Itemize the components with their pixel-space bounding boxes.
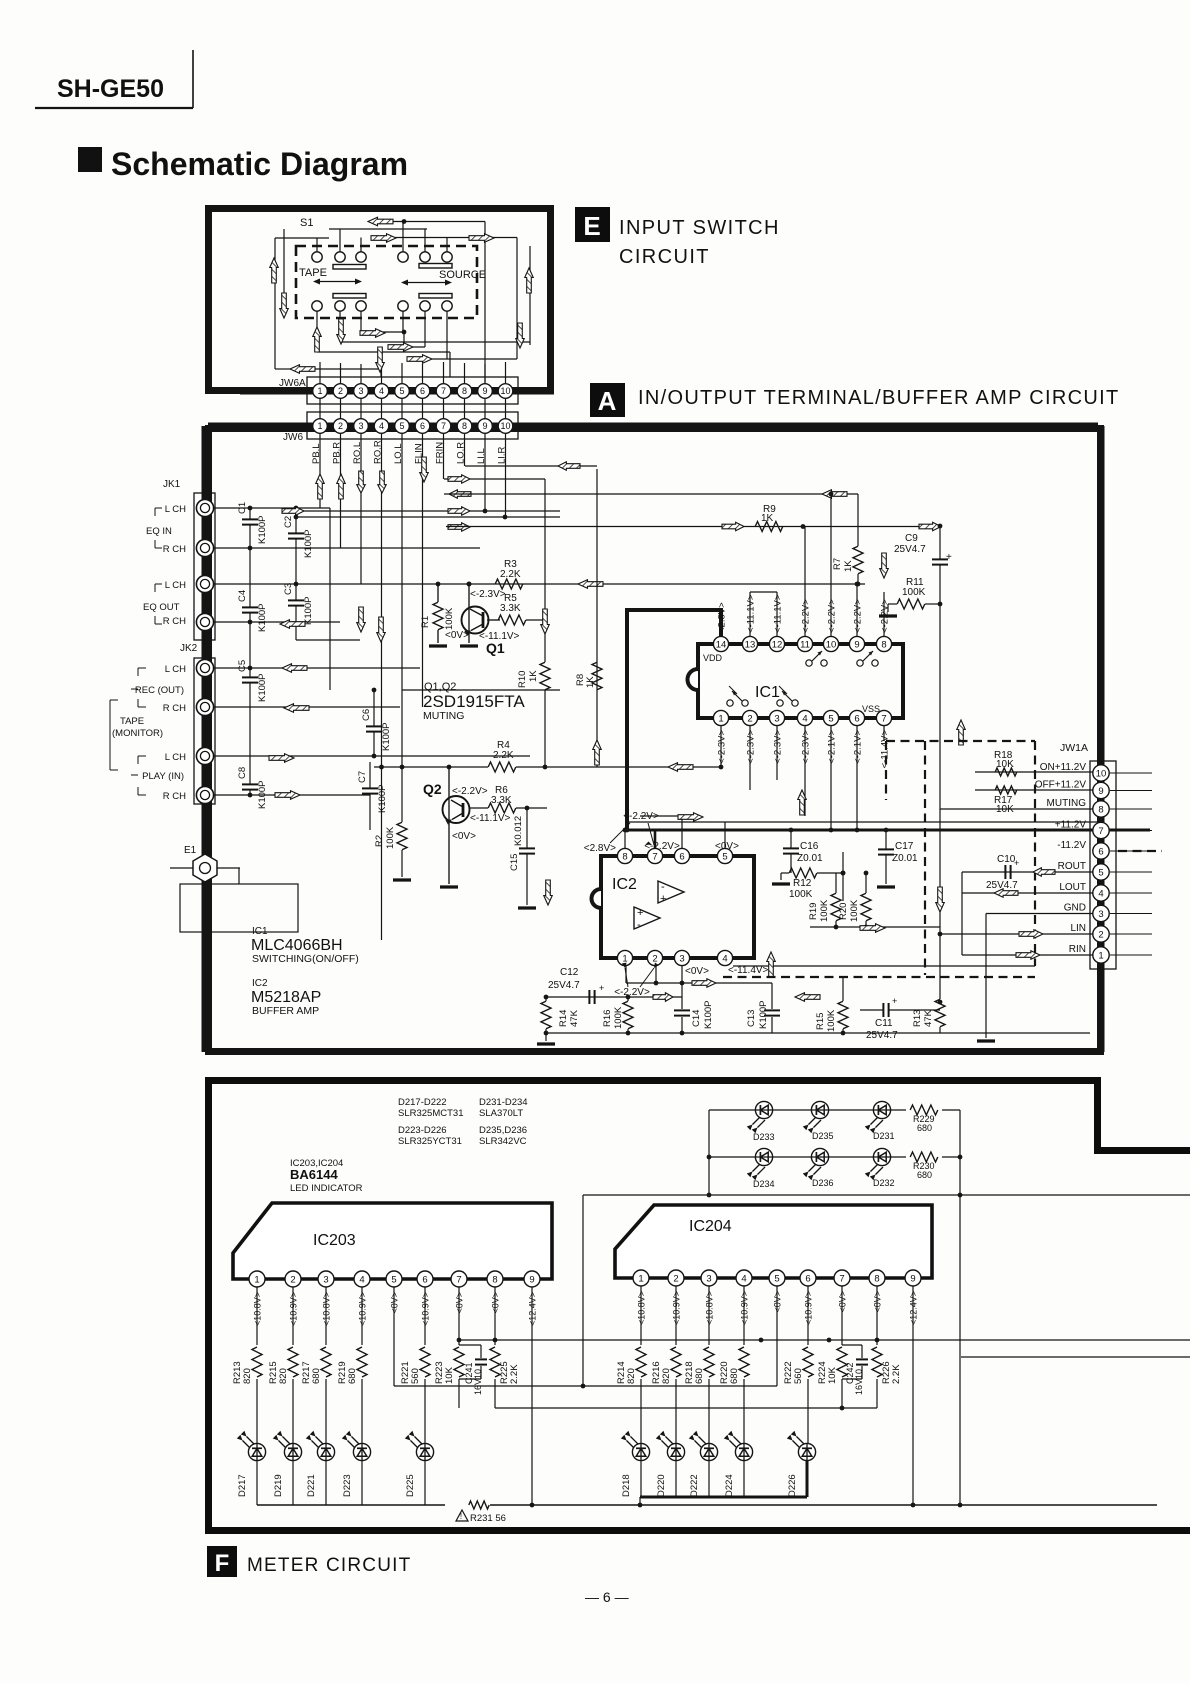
svg-text:680: 680 [347,1368,358,1384]
svg-text:5: 5 [722,851,727,862]
svg-text:<-2.2V>: <-2.2V> [452,786,488,797]
svg-text:3: 3 [774,713,779,724]
svg-text:8: 8 [462,386,467,396]
svg-text:10: 10 [500,421,510,431]
svg-text:3.3K: 3.3K [500,603,521,614]
svg-text:LOUT: LOUT [1059,882,1086,893]
svg-text:SLR342VC: SLR342VC [479,1136,527,1147]
svg-text:560: 560 [793,1368,804,1384]
svg-text:4: 4 [802,713,807,724]
svg-text:R CH: R CH [163,616,186,627]
svg-text:C16: C16 [800,841,819,852]
svg-text:9: 9 [910,1273,915,1284]
svg-text:MLC4066BH: MLC4066BH [251,937,343,954]
svg-text:6: 6 [805,1273,810,1284]
svg-text:3: 3 [358,421,363,431]
svg-text:R1: R1 [420,616,431,628]
svg-text:INPUT SWITCH: INPUT SWITCH [619,217,780,239]
svg-text:OFF+11.2V: OFF+11.2V [1035,780,1087,791]
svg-text:D223-D226: D223-D226 [398,1125,447,1136]
svg-text:R14: R14 [558,1010,569,1027]
svg-text:D218: D218 [621,1474,632,1497]
svg-text:100K: 100K [385,826,396,849]
svg-text:820: 820 [626,1368,637,1384]
svg-text:3: 3 [706,1273,711,1284]
svg-text:<-2.3V>: <-2.3V> [746,730,757,764]
svg-text:+: + [637,907,643,919]
svg-text:K100P: K100P [257,673,268,702]
svg-text:D221: D221 [306,1474,317,1497]
svg-text:4: 4 [359,1274,364,1285]
svg-text:5: 5 [399,386,404,396]
svg-text:+: + [660,893,666,905]
svg-text:6: 6 [420,421,425,431]
svg-text:<-11.1V>: <-11.1V> [470,813,511,824]
svg-text:JW6A: JW6A [279,378,306,389]
svg-text:MUTING: MUTING [1047,798,1087,809]
svg-text:ON+11.2V: ON+11.2V [1040,762,1087,773]
svg-text:Schematic Diagram: Schematic Diagram [111,146,408,182]
svg-text:-: - [661,881,665,893]
svg-text:A: A [598,386,617,416]
svg-text:2: 2 [338,421,343,431]
svg-text:6: 6 [1098,846,1103,857]
svg-text:820: 820 [278,1368,289,1384]
svg-text:VDD: VDD [703,653,723,663]
svg-text:6: 6 [854,713,859,724]
svg-text:R231 56: R231 56 [470,1513,506,1524]
svg-text:5: 5 [828,713,833,724]
svg-text:D224: D224 [724,1474,735,1497]
svg-text:100K: 100K [826,1009,837,1032]
svg-text:1: 1 [622,953,627,964]
svg-text:R2: R2 [374,835,385,847]
svg-text:8: 8 [874,1273,879,1284]
svg-text:TAPE: TAPE [299,267,327,279]
svg-text:K100P: K100P [257,515,268,544]
svg-text:2: 2 [747,713,752,724]
svg-text:RIN: RIN [1069,944,1086,955]
svg-text:820: 820 [242,1368,253,1384]
svg-text:L CH: L CH [165,580,186,591]
svg-text:D222: D222 [689,1474,700,1497]
svg-text:Q2: Q2 [423,781,442,797]
svg-text:4: 4 [379,421,384,431]
svg-text:100K: 100K [613,1006,624,1029]
svg-text:+11.2V: +11.2V [1055,820,1087,831]
svg-text:D235: D235 [812,1131,834,1141]
svg-text:1: 1 [317,386,322,396]
svg-text:R CH: R CH [163,544,186,555]
svg-text:820: 820 [661,1368,672,1384]
svg-text:10: 10 [826,639,837,650]
svg-text:3: 3 [1098,909,1103,920]
svg-text:C2: C2 [283,516,294,528]
svg-text:S1: S1 [300,217,313,229]
svg-text:16V10: 16V10 [854,1369,864,1395]
svg-text:D232: D232 [873,1178,895,1188]
svg-text:4: 4 [722,953,727,964]
svg-text:C17: C17 [895,841,914,852]
svg-text:D234: D234 [753,1179,775,1189]
svg-text:8: 8 [622,851,627,862]
svg-text:C5: C5 [237,660,248,672]
svg-text:25V4.7: 25V4.7 [866,1030,898,1041]
svg-text:R20: R20 [838,903,849,920]
svg-text:3: 3 [358,386,363,396]
svg-text:Z0.01: Z0.01 [892,853,918,864]
svg-text:K100P: K100P [257,603,268,632]
svg-text:<2.8V>: <2.8V> [717,602,728,633]
svg-text:LIN: LIN [1070,923,1086,934]
svg-text:<0V>: <0V> [685,966,709,977]
svg-text:-11.2V: -11.2V [1057,840,1086,851]
svg-text:5: 5 [399,421,404,431]
svg-text:100K: 100K [849,899,860,922]
svg-text:E1: E1 [184,845,197,856]
svg-text:6: 6 [679,851,684,862]
svg-text:680: 680 [917,1123,932,1133]
svg-text:IN/OUTPUT TERMINAL/BUFFER AM: IN/OUTPUT TERMINAL/BUFFER AMP CIRCUIT [638,387,1119,409]
svg-text:E: E [583,211,600,241]
svg-text:2: 2 [673,1273,678,1284]
svg-text:R12: R12 [793,878,812,889]
svg-text:13: 13 [745,639,756,650]
svg-text:7: 7 [839,1273,844,1284]
svg-text:8: 8 [462,421,467,431]
svg-text:7: 7 [456,1274,461,1285]
svg-text:BUFFER AMP: BUFFER AMP [252,1005,319,1017]
svg-text:6: 6 [420,386,425,396]
svg-text:10K: 10K [444,1366,455,1384]
svg-text:C10: C10 [997,854,1016,865]
svg-text:2: 2 [290,1274,295,1285]
svg-text:R7: R7 [832,558,843,570]
svg-text:8: 8 [492,1274,497,1285]
svg-text:<-2.2V>: <-2.2V> [614,987,650,998]
svg-text:R15: R15 [815,1013,826,1030]
svg-text:3: 3 [323,1274,328,1285]
svg-text:D223: D223 [342,1474,353,1497]
svg-text:11: 11 [800,639,810,650]
svg-text:10: 10 [1096,768,1107,779]
svg-text:10: 10 [500,386,510,396]
svg-text:14: 14 [716,639,727,650]
svg-text:MUTING: MUTING [423,710,464,722]
svg-text:GND: GND [1064,903,1086,914]
svg-text:16V10: 16V10 [473,1369,483,1395]
svg-text:LED INDICATOR: LED INDICATOR [290,1183,363,1194]
svg-text:<0V>: <0V> [715,841,739,852]
svg-text:6: 6 [422,1274,427,1285]
svg-text:D226: D226 [787,1474,798,1497]
svg-text:SLR325YCT31: SLR325YCT31 [398,1136,462,1147]
svg-text:K100P: K100P [703,1000,714,1029]
svg-text:R19: R19 [808,903,819,920]
svg-text:D236: D236 [812,1178,834,1188]
svg-text:8: 8 [881,639,886,650]
svg-text:5: 5 [774,1273,779,1284]
svg-text:C14: C14 [691,1010,702,1027]
svg-text:SH-GE50: SH-GE50 [57,75,164,103]
svg-text:K0.012: K0.012 [513,816,524,846]
svg-text:VSS: VSS [862,704,880,714]
svg-text:1K: 1K [528,670,539,682]
svg-text:C9: C9 [905,533,918,544]
svg-text:12: 12 [772,639,783,650]
svg-text:D217-D222: D217-D222 [398,1097,447,1108]
svg-text:2: 2 [338,386,343,396]
svg-text:47K: 47K [569,1009,580,1027]
svg-text:(MONITOR): (MONITOR) [112,728,163,739]
svg-text:R CH: R CH [163,703,186,714]
svg-text:+: + [599,983,604,993]
svg-text:<-2.2V>: <-2.2V> [801,599,812,633]
svg-text:+: + [946,552,952,563]
svg-text:<-2.2V>: <-2.2V> [827,599,838,633]
svg-text:4: 4 [1098,888,1103,899]
svg-text:C6: C6 [361,709,372,721]
svg-text:K100P: K100P [377,784,388,813]
svg-text:IC203: IC203 [313,1232,356,1249]
svg-text:D219: D219 [273,1474,284,1497]
svg-text:9: 9 [854,639,859,650]
svg-text:D220: D220 [656,1474,667,1497]
svg-text:5: 5 [1098,867,1103,878]
svg-text:4: 4 [379,386,384,396]
svg-text:<-2.1V>: <-2.1V> [853,730,864,764]
svg-text:K100P: K100P [758,1000,769,1029]
svg-text:<0V>: <0V> [452,831,476,842]
svg-text:SLA370LT: SLA370LT [479,1108,523,1119]
svg-text:2.2K: 2.2K [891,1364,902,1384]
svg-text:K100P: K100P [303,596,314,625]
svg-text:7: 7 [881,713,886,724]
svg-text:1: 1 [718,713,723,724]
svg-text:1: 1 [1098,950,1103,961]
svg-text:2.2K: 2.2K [509,1364,520,1384]
svg-text:100K: 100K [819,899,830,922]
svg-text:CIRCUIT: CIRCUIT [619,246,710,268]
svg-text:IC1: IC1 [755,684,780,701]
svg-text:Z0.01: Z0.01 [797,853,823,864]
svg-text:680: 680 [694,1368,705,1384]
svg-text:D231-D234: D231-D234 [479,1097,528,1108]
svg-text:9: 9 [482,386,487,396]
svg-text:ROUT: ROUT [1058,861,1086,872]
svg-text:M5218AP: M5218AP [251,989,321,1006]
svg-text:D233: D233 [753,1132,775,1142]
svg-text:F: F [215,1550,230,1577]
svg-text:10K: 10K [996,759,1014,770]
svg-text:TAPE: TAPE [120,716,144,727]
svg-text:C4: C4 [237,590,248,602]
svg-text:IC204: IC204 [689,1218,732,1235]
svg-text:8: 8 [1098,804,1103,815]
svg-text:47K: 47K [923,1009,934,1027]
svg-text:C15: C15 [509,854,520,871]
svg-text:SLR325MCT31: SLR325MCT31 [398,1108,463,1119]
svg-text:— 6 —: — 6 — [585,1589,629,1605]
svg-text:<-11.1V>: <-11.1V> [746,594,757,633]
svg-text:D225: D225 [405,1474,416,1497]
svg-text:<-2.1V>: <-2.1V> [827,730,838,764]
svg-text:L CH: L CH [165,504,186,515]
svg-text:2.2K: 2.2K [500,569,521,580]
svg-text:EQ IN: EQ IN [146,526,172,537]
svg-text:<-11.4V>: <-11.4V> [728,965,769,976]
svg-text:2: 2 [1098,929,1103,940]
svg-text:JW1A: JW1A [1060,742,1088,754]
svg-text:1: 1 [638,1273,643,1284]
svg-text:<-2.3V>: <-2.3V> [773,730,784,764]
svg-text:560: 560 [410,1368,421,1384]
svg-text:C13: C13 [746,1010,757,1027]
svg-text:BA6144: BA6144 [290,1167,338,1182]
svg-text:<2.8V>: <2.8V> [584,843,616,854]
svg-text:R10: R10 [517,671,528,688]
svg-text:IC2: IC2 [252,978,268,989]
svg-text:<-2.2V>: <-2.2V> [853,599,864,633]
svg-text:100K: 100K [789,889,813,900]
svg-text:100K: 100K [902,587,926,598]
svg-text:METER CIRCUIT: METER CIRCUIT [247,1555,411,1576]
svg-text:100K: 100K [444,607,455,630]
svg-text:SWITCHING(ON/OFF): SWITCHING(ON/OFF) [252,953,359,965]
svg-text:25V4.7: 25V4.7 [548,980,580,991]
svg-text:9: 9 [482,421,487,431]
svg-text:R CH: R CH [163,791,186,802]
svg-text:JW6: JW6 [283,432,303,443]
svg-text:7: 7 [441,386,446,396]
svg-text:IC2: IC2 [612,876,637,893]
svg-text:680: 680 [917,1170,932,1180]
svg-text:7: 7 [1098,826,1103,837]
svg-text:SOURCE: SOURCE [439,269,486,281]
svg-text:D231: D231 [873,1131,895,1141]
svg-text:<-2.3V>: <-2.3V> [717,730,728,764]
svg-text:<-2.3V>: <-2.3V> [801,730,812,764]
svg-text:7: 7 [652,851,657,862]
svg-text:JK1: JK1 [163,479,181,490]
svg-text:R13: R13 [912,1010,923,1027]
svg-text:C12: C12 [560,967,579,978]
svg-text:+: + [892,996,897,1006]
svg-text:C8: C8 [237,767,248,779]
svg-text:<0V>: <0V> [445,630,469,641]
svg-text:EQ OUT: EQ OUT [143,602,180,613]
svg-text:R16: R16 [602,1010,613,1027]
svg-text:C7: C7 [357,771,368,783]
svg-text:7: 7 [441,421,446,431]
svg-text:3: 3 [679,953,684,964]
svg-text:1: 1 [254,1274,259,1285]
svg-text:1K: 1K [843,560,854,572]
svg-text:Q1: Q1 [486,640,505,656]
svg-text:1: 1 [317,421,322,431]
svg-text:25V4.7: 25V4.7 [894,544,926,555]
svg-text:IC1: IC1 [252,926,268,937]
svg-text:-: - [637,919,641,931]
svg-text:4: 4 [741,1273,746,1284]
svg-text:JK2: JK2 [180,643,198,654]
svg-text:PLAY (IN): PLAY (IN) [142,771,184,782]
svg-text:1K: 1K [585,676,596,688]
svg-text:<-2.3V>: <-2.3V> [470,589,506,600]
svg-text:D217: D217 [237,1474,248,1497]
svg-text:2SD1915FTA: 2SD1915FTA [423,692,525,711]
svg-text:680: 680 [311,1368,322,1384]
svg-text:!: ! [460,1512,462,1521]
svg-text:REC (OUT): REC (OUT) [135,685,184,696]
svg-text:K100P: K100P [381,722,392,751]
svg-text:L CH: L CH [165,664,186,675]
svg-text:680: 680 [729,1368,740,1384]
svg-text:L CH: L CH [165,752,186,763]
svg-text:C11: C11 [875,1018,893,1029]
svg-text:10K: 10K [827,1366,838,1384]
svg-text:K100P: K100P [303,529,314,558]
svg-text:<-11.1V>: <-11.1V> [773,594,784,633]
svg-text:9: 9 [1098,786,1103,797]
svg-text:5: 5 [391,1274,396,1285]
svg-text:2.2K: 2.2K [493,750,514,761]
svg-text:D235,D236: D235,D236 [479,1125,527,1136]
svg-text:C3: C3 [283,583,294,595]
svg-text:9: 9 [529,1274,534,1285]
